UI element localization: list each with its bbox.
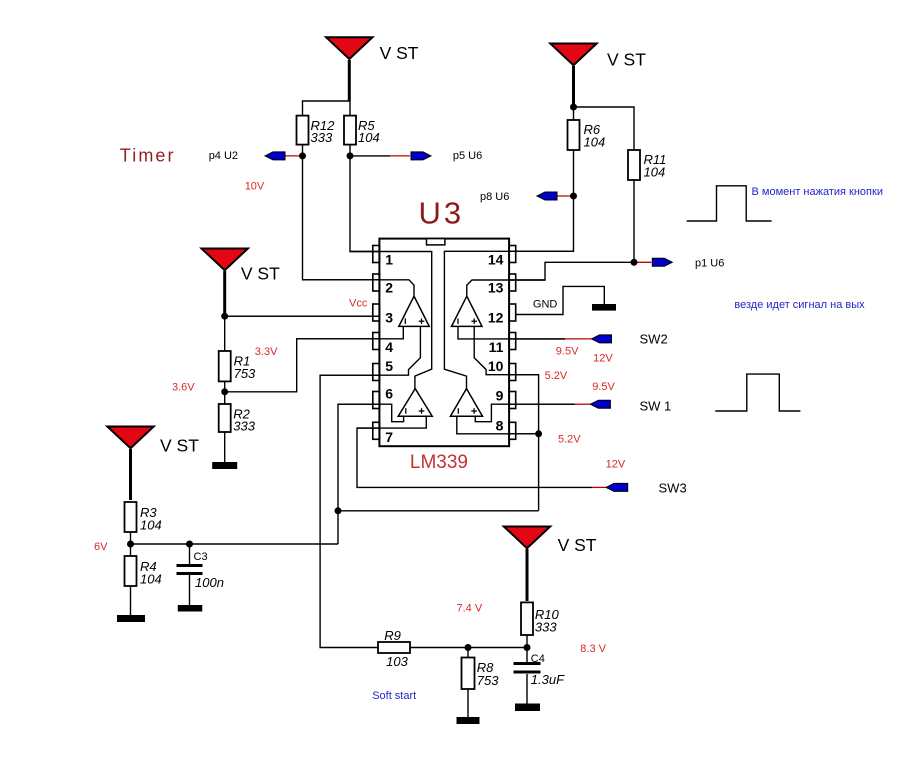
- svg-text:3.3V: 3.3V: [255, 346, 278, 358]
- svg-text:R9: R9: [384, 628, 401, 643]
- svg-text:333: 333: [535, 620, 557, 635]
- svg-text:V ST: V ST: [241, 264, 280, 284]
- svg-text:p5 U6: p5 U6: [453, 150, 482, 162]
- svg-text:14: 14: [488, 252, 504, 268]
- svg-text:V ST: V ST: [558, 535, 597, 555]
- svg-text:C4: C4: [531, 653, 545, 665]
- svg-text:753: 753: [234, 366, 256, 381]
- svg-text:SW3: SW3: [659, 481, 687, 496]
- svg-text:8: 8: [496, 418, 504, 434]
- svg-text:1.3uF: 1.3uF: [531, 672, 565, 687]
- svg-text:104: 104: [584, 135, 606, 150]
- svg-text:12V: 12V: [593, 352, 613, 364]
- svg-text:5.2V: 5.2V: [558, 434, 581, 446]
- svg-text:9.5V: 9.5V: [592, 381, 615, 393]
- svg-text:SW 1: SW 1: [640, 398, 672, 413]
- svg-text:p1 U6: p1 U6: [695, 258, 724, 270]
- svg-text:V ST: V ST: [160, 436, 199, 456]
- svg-text:3: 3: [385, 309, 393, 325]
- svg-text:5: 5: [385, 358, 393, 374]
- svg-text:3.6V: 3.6V: [172, 382, 195, 394]
- svg-text:5.2V: 5.2V: [545, 370, 568, 382]
- svg-text:100n: 100n: [195, 575, 224, 590]
- svg-text:13: 13: [488, 280, 504, 296]
- svg-text:4: 4: [385, 339, 393, 355]
- svg-text:104: 104: [140, 572, 162, 587]
- svg-text:333: 333: [311, 130, 333, 145]
- svg-text:V ST: V ST: [380, 43, 419, 63]
- svg-text:LM339: LM339: [410, 452, 468, 473]
- svg-text:10: 10: [488, 358, 504, 374]
- svg-text:U3: U3: [419, 196, 465, 231]
- svg-text:6V: 6V: [94, 541, 108, 553]
- svg-text:везде идет сигнал на вых: везде идет сигнал на вых: [734, 299, 865, 311]
- svg-text:9: 9: [496, 388, 504, 404]
- svg-text:C3: C3: [194, 551, 208, 563]
- svg-text:12V: 12V: [606, 458, 626, 470]
- svg-text:2: 2: [385, 280, 393, 296]
- svg-text:10V: 10V: [245, 180, 265, 192]
- svg-text:753: 753: [477, 673, 499, 688]
- svg-text:333: 333: [233, 418, 255, 433]
- svg-text:7.4 V: 7.4 V: [457, 603, 483, 615]
- svg-text:SW2: SW2: [640, 331, 668, 346]
- svg-text:Timer: Timer: [120, 146, 176, 166]
- svg-text:p8 U6: p8 U6: [480, 191, 509, 203]
- svg-text:p4 U2: p4 U2: [209, 150, 238, 162]
- svg-text:104: 104: [644, 165, 666, 180]
- svg-text:8.3 V: 8.3 V: [580, 643, 606, 655]
- svg-text:GND: GND: [533, 299, 558, 311]
- svg-text:12: 12: [488, 309, 504, 325]
- svg-text:6: 6: [385, 386, 393, 402]
- svg-text:1: 1: [385, 252, 393, 268]
- svg-text:11: 11: [489, 339, 504, 355]
- svg-text:Vcc: Vcc: [349, 298, 368, 310]
- svg-text:В момент нажатия кнопки: В момент нажатия кнопки: [752, 186, 883, 198]
- svg-text:Soft start: Soft start: [372, 690, 416, 702]
- svg-text:7: 7: [385, 429, 393, 445]
- svg-text:9.5V: 9.5V: [556, 346, 579, 358]
- svg-text:V ST: V ST: [607, 50, 646, 70]
- svg-text:103: 103: [386, 654, 408, 669]
- svg-text:104: 104: [358, 130, 380, 145]
- svg-text:104: 104: [140, 518, 162, 533]
